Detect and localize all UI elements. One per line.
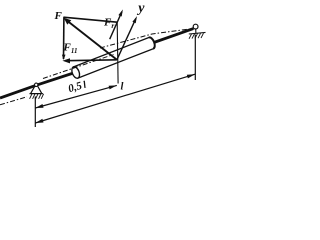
svg-text:0,5l: 0,5l — [67, 79, 88, 96]
svg-text:F: F — [54, 10, 63, 22]
svg-text:y: y — [136, 1, 145, 16]
svg-text:F11: F11 — [63, 42, 78, 56]
svg-text:l: l — [121, 82, 124, 93]
svg-text:Fr: Fr — [103, 17, 114, 31]
